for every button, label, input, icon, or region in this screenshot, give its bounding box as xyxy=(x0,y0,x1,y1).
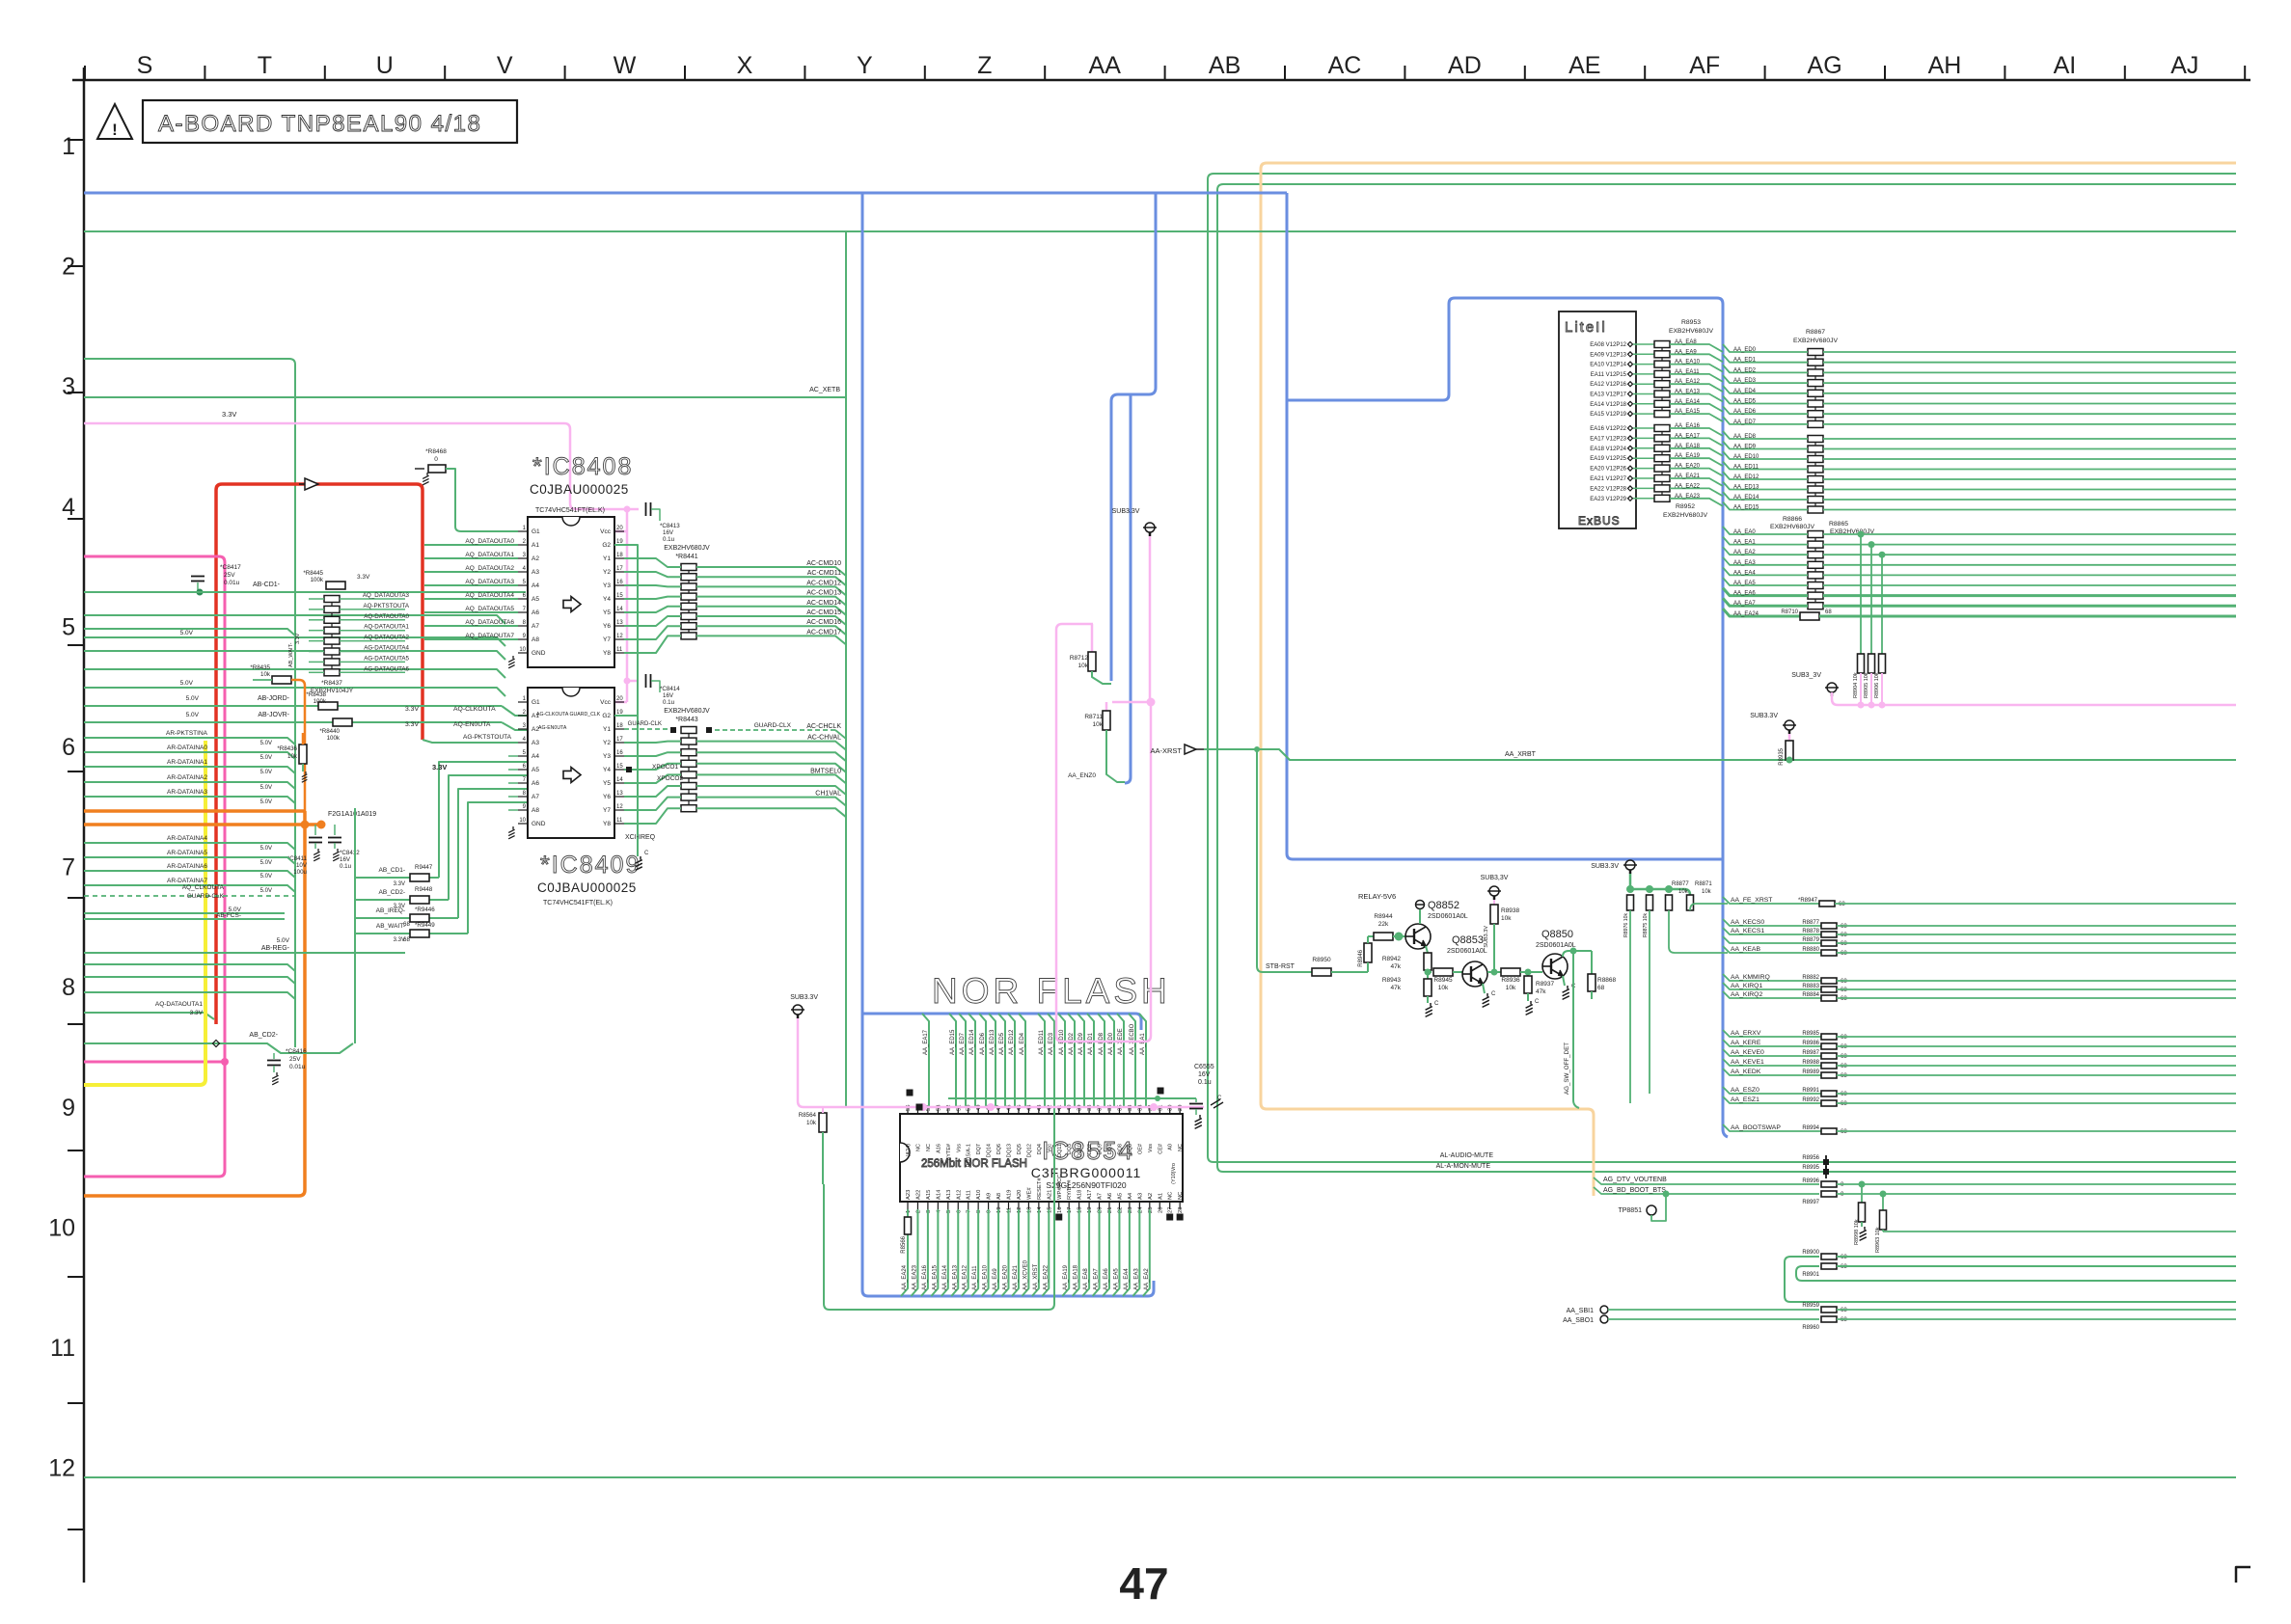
wire net AA_KECS1 row y=969 xyxy=(1723,928,1821,934)
wires R8443 to bus with labels xyxy=(715,729,835,731)
svg-text:C: C xyxy=(1535,999,1540,1005)
svg-text:R8988: R8988 xyxy=(1802,1060,1819,1066)
svg-text:AA_EA11: AA_EA11 xyxy=(1675,369,1700,375)
svg-text:C: C xyxy=(1434,1001,1439,1007)
svg-text:AA_KERE: AA_KERE xyxy=(1731,1040,1761,1046)
svg-text:AA_SBO1: AA_SBO1 xyxy=(1563,1317,1594,1324)
svg-text:AC-CMD17: AC-CMD17 xyxy=(806,629,841,636)
svg-text:14: 14 xyxy=(616,777,623,783)
wire from R8468 to IC8408 pin1 G1 xyxy=(446,469,518,531)
svg-text:W: W xyxy=(614,52,637,79)
svg-text:A7: A7 xyxy=(1098,1193,1104,1200)
wire blue vertical x=1334 to y=891 then right to bus x=1786 xyxy=(1287,193,1722,859)
svg-text:CE#: CE# xyxy=(1158,1143,1163,1154)
junction pink pin20 IC8408 xyxy=(624,506,631,513)
svg-text:AA_KIRQ1: AA_KIRQ1 xyxy=(1731,983,1762,989)
svg-text:AC-CMD16: AC-CMD16 xyxy=(806,619,841,626)
svg-text:A5: A5 xyxy=(532,596,539,603)
svg-text:AA_ED2: AA_ED2 xyxy=(1733,367,1757,373)
svg-text:68: 68 xyxy=(1841,1035,1847,1041)
resistor R8991 68 xyxy=(1821,1091,1837,1096)
wire R8935 to AA_XRST net xyxy=(1788,757,1790,760)
svg-text:AA_ED10: AA_ED10 xyxy=(1733,454,1759,460)
svg-text:2SD0601A0L: 2SD0601A0L xyxy=(1447,948,1487,955)
svg-text:AA_ED1: AA_ED1 xyxy=(1733,358,1757,364)
svg-text:XCI-IREQ: XCI-IREQ xyxy=(625,834,656,841)
wire blue vertical x=894 (NOR flash left side) xyxy=(862,193,868,1296)
svg-text:RY/BY#: RY/BY# xyxy=(1067,1179,1073,1200)
svg-text:*R8441: *R8441 xyxy=(675,554,697,560)
wire net AA_KEAB row y=988 xyxy=(1723,946,1821,953)
wire net AB-JORD- through R8438 xyxy=(84,705,318,707)
svg-text:R8880: R8880 xyxy=(1802,947,1819,953)
wire Q8852 emitter to R8942 xyxy=(1426,946,1428,953)
svg-text:R8995: R8995 xyxy=(1802,1165,1819,1171)
svg-text:AA_KECS1: AA_KECS1 xyxy=(1731,928,1764,934)
wire blue NOR flash bottom bus y=1344 xyxy=(868,1281,1154,1296)
capacitor C8414 0.1u 16V xyxy=(646,674,651,688)
svg-text:AA_ED4: AA_ED4 xyxy=(1020,1032,1025,1055)
svg-text:AA_EA10: AA_EA10 xyxy=(1675,360,1701,365)
svg-text:AA_ED15: AA_ED15 xyxy=(950,1029,956,1055)
svg-text:XPOCO1: XPOCO1 xyxy=(652,764,678,771)
wire net AC_XETB from left edge y=412 xyxy=(84,396,846,398)
svg-text:AB-CD1-: AB-CD1- xyxy=(253,582,281,588)
svg-text:R8997: R8997 xyxy=(1802,1200,1819,1205)
svg-text:R8938: R8938 xyxy=(1501,907,1520,914)
svg-text:*C8416: *C8416 xyxy=(286,1048,307,1055)
svg-text:AC-CMD10: AC-CMD10 xyxy=(806,560,841,567)
capacitor C8416 0.01u 25V xyxy=(273,1053,275,1059)
svg-text:16: 16 xyxy=(616,580,623,585)
svg-text:C0JBAU000025: C0JBAU000025 xyxy=(530,482,629,497)
svg-text:5.0V: 5.0V xyxy=(260,785,272,791)
svg-text:AA_ED13: AA_ED13 xyxy=(1733,485,1759,491)
svg-text:LiteIl: LiteIl xyxy=(1565,319,1607,336)
wire net AA_ESZ0 row y=1134 xyxy=(1723,1087,1821,1094)
svg-text:AE: AE xyxy=(1568,52,1600,79)
ground at IC8409 pin10 xyxy=(508,826,514,839)
wires IC8409 outputs to R8443 xyxy=(624,728,670,730)
resistor R8992 68 xyxy=(1821,1100,1837,1106)
svg-text:Y4: Y4 xyxy=(603,596,611,603)
resistor array R8437 EXB2HV104JY xyxy=(331,595,333,676)
svg-text:68: 68 xyxy=(403,936,410,943)
svg-text:Y6: Y6 xyxy=(603,794,611,800)
svg-text:AA_ED14: AA_ED14 xyxy=(1733,495,1759,501)
svg-text:68: 68 xyxy=(1841,1092,1847,1097)
wire net AA_ESZ1 row y=1144 xyxy=(1723,1096,1821,1103)
svg-text:BYTE#: BYTE# xyxy=(946,1143,952,1160)
resistor R8445 100k xyxy=(326,582,345,589)
svg-text:10: 10 xyxy=(48,1214,75,1241)
wire green R8712 to blue end xyxy=(1092,671,1111,684)
svg-text:5.0V: 5.0V xyxy=(260,755,272,761)
svg-text:DQ15/A-1: DQ15/A-1 xyxy=(967,1144,972,1167)
svg-text:EA18 V12P24: EA18 V12P24 xyxy=(1590,447,1626,452)
wire net AG-PKTSTOUTA from red to IC8409 pin4 xyxy=(423,740,518,743)
svg-text:11: 11 xyxy=(616,647,623,653)
svg-text:G2: G2 xyxy=(602,713,611,719)
svg-text:AA_SBI1: AA_SBI1 xyxy=(1567,1308,1595,1314)
wires AA_EA8-15 from R8953 into blue bus xyxy=(1670,344,1723,352)
svg-text:10k: 10k xyxy=(1093,721,1104,728)
svg-text:AG-DATAOUTA6: AG-DATAOUTA6 xyxy=(364,665,409,672)
svg-text:16V: 16V xyxy=(663,529,674,536)
svg-text:AA_EA20: AA_EA20 xyxy=(1003,1264,1009,1290)
svg-text:17: 17 xyxy=(616,566,623,572)
svg-text:*C8414: *C8414 xyxy=(660,686,680,692)
resistor R8935 10k xyxy=(1788,734,1791,741)
resistor array R8441 EXB2HV680JV xyxy=(688,563,690,639)
svg-text:Vss: Vss xyxy=(1148,1144,1154,1152)
warning triangle symbol xyxy=(97,104,132,139)
svg-text:AQ_DATAOUTA3: AQ_DATAOUTA3 xyxy=(465,579,514,585)
resistor R8900 68 xyxy=(1821,1254,1837,1259)
svg-text:R8989: R8989 xyxy=(1802,1069,1819,1075)
svg-text:AA_EA10: AA_EA10 xyxy=(983,1264,989,1290)
svg-text:R8944: R8944 xyxy=(1374,913,1393,920)
svg-text:C3FBRG000011: C3FBRG000011 xyxy=(1031,1165,1141,1180)
svg-text:*IC8408: *IC8408 xyxy=(532,453,633,480)
svg-text:R8882: R8882 xyxy=(1802,975,1819,981)
svg-text:EXB2HV680JV: EXB2HV680JV xyxy=(664,545,710,552)
svg-text:AA_EA18: AA_EA18 xyxy=(1675,444,1701,449)
svg-text:AC-CMD13: AC-CMD13 xyxy=(806,590,841,597)
svg-text:RESET#: RESET# xyxy=(1037,1177,1043,1200)
capacitor C8412 0.1u xyxy=(334,825,336,835)
svg-text:WP#/ACC: WP#/ACC xyxy=(1057,1175,1063,1200)
transistor Q2 Q8852 2SD0601A0L xyxy=(1405,924,1431,949)
svg-text:AA_EA21: AA_EA21 xyxy=(1013,1264,1019,1290)
svg-text:DQ12: DQ12 xyxy=(1026,1144,1032,1157)
svg-text:AR-DATAINA4: AR-DATAINA4 xyxy=(167,835,207,842)
svg-text:AA_EA20: AA_EA20 xyxy=(1675,464,1701,470)
svg-text:AA_XECBO: AA_XECBO xyxy=(1130,1023,1135,1055)
svg-text:R9448: R9448 xyxy=(415,886,433,893)
svg-text:AA_ED2: AA_ED2 xyxy=(1069,1032,1075,1055)
svg-text:AA_EA2: AA_EA2 xyxy=(1733,550,1756,555)
svg-text:A21: A21 xyxy=(1047,1190,1052,1200)
svg-text:5.0V: 5.0V xyxy=(180,680,194,687)
svg-text:AR-DATAINA1: AR-DATAINA1 xyxy=(167,759,207,766)
column ruler tick marks xyxy=(84,66,86,80)
svg-text:Y: Y xyxy=(857,52,873,79)
svg-text:AD: AD xyxy=(1448,52,1482,79)
wire net AA_KECS0 row y=960 xyxy=(1723,919,1821,926)
wire red loop around IC8408 input area xyxy=(216,484,423,1024)
svg-text:EA15 V12P19: EA15 V12P19 xyxy=(1590,412,1626,418)
wire net AA_KIRQ2 row y=1035 xyxy=(1723,991,1821,998)
svg-text:SUB3.3V: SUB3.3V xyxy=(790,994,818,1001)
svg-text:Y7: Y7 xyxy=(603,636,611,643)
ground at IC8408 pin10 xyxy=(508,656,514,668)
border left ruler line xyxy=(83,68,86,1583)
svg-text:AQ_DATAOUTA0: AQ_DATAOUTA0 xyxy=(465,538,514,545)
resistor R8712 10k xyxy=(1091,624,1094,652)
svg-text:R8866: R8866 xyxy=(1783,516,1802,523)
svg-text:AA_EA23: AA_EA23 xyxy=(1675,494,1701,500)
IC8554 top bus entry wires with net labels xyxy=(922,1014,929,1106)
junction deep pink xyxy=(221,1058,229,1066)
svg-text:A5: A5 xyxy=(1117,1193,1123,1200)
svg-text:R8987: R8987 xyxy=(1802,1050,1819,1056)
svg-text:AA_EA14: AA_EA14 xyxy=(942,1264,948,1290)
svg-text:SUB3.3V: SUB3.3V xyxy=(1112,508,1140,515)
svg-text:AR-DATAINA0: AR-DATAINA0 xyxy=(167,744,207,751)
svg-text:14: 14 xyxy=(616,607,623,612)
resistor R8996 0 xyxy=(1821,1181,1837,1187)
svg-text:R8942: R8942 xyxy=(1382,956,1402,962)
svg-text:DQ14: DQ14 xyxy=(987,1144,993,1157)
svg-text:100k: 100k xyxy=(311,577,324,583)
svg-text:AA_EA1: AA_EA1 xyxy=(1140,1033,1146,1055)
svg-text:U: U xyxy=(376,52,394,79)
svg-text:A6: A6 xyxy=(532,780,539,787)
svg-text:AB-JOVR-: AB-JOVR- xyxy=(258,712,289,718)
svg-text:A3: A3 xyxy=(532,569,539,576)
svg-text:R8904 10k: R8904 10k xyxy=(1853,672,1859,698)
svg-text:68: 68 xyxy=(1841,1101,1847,1107)
svg-text:Y7: Y7 xyxy=(603,807,611,814)
svg-text:AQ_DATAOUTA5: AQ_DATAOUTA5 xyxy=(465,606,514,612)
wire net R8900 row with staircase xyxy=(1785,1257,2236,1302)
component R8995 on AL-A-MON-MUTE line xyxy=(1823,1169,1829,1175)
svg-text:AA_EA23: AA_EA23 xyxy=(912,1264,917,1290)
wire deep pink loop left xyxy=(84,556,225,1177)
svg-text:68: 68 xyxy=(1841,951,1847,957)
wire net AB_CD2- with C8416 xyxy=(84,1043,353,1053)
svg-text:11: 11 xyxy=(616,818,623,824)
svg-text:10k: 10k xyxy=(287,753,298,760)
svg-text:Y6: Y6 xyxy=(603,623,611,630)
arrow marker on red wire xyxy=(305,478,318,490)
border top ruler line xyxy=(72,79,2250,82)
svg-text:A3: A3 xyxy=(1137,1193,1143,1200)
svg-text:EA12 V12P16: EA12 V12P16 xyxy=(1590,382,1626,388)
svg-text:5.0V: 5.0V xyxy=(260,770,272,775)
svg-text:12: 12 xyxy=(48,1455,75,1482)
svg-text:68: 68 xyxy=(1841,941,1847,947)
wires IC8408 outputs Y1-Y8 to R8441 xyxy=(624,558,681,567)
svg-text:68: 68 xyxy=(1841,1044,1847,1050)
svg-text:3.3V: 3.3V xyxy=(190,1010,204,1016)
resistor R8882 68 xyxy=(1821,978,1837,984)
svg-text:13: 13 xyxy=(616,620,623,626)
svg-text:R8976 10k: R8976 10k xyxy=(1623,913,1629,937)
svg-text:AL-A-MON-MUTE: AL-A-MON-MUTE xyxy=(1436,1163,1491,1170)
wire net AA_KERE row y=1085 xyxy=(1723,1040,1821,1046)
svg-text:AB_CD2-: AB_CD2- xyxy=(379,889,405,896)
svg-text:*R8437: *R8437 xyxy=(321,680,342,687)
wire net AG_BD_BOOT_BTS from orange bus xyxy=(1594,1187,1819,1194)
svg-text:R8963 10k: R8963 10k xyxy=(1875,1227,1881,1253)
svg-text:EA11 V12P15: EA11 V12P15 xyxy=(1591,372,1627,378)
resistor array R8865 EXB2HV680JV xyxy=(1814,530,1816,609)
resistor R8877 10k xyxy=(1666,895,1673,910)
svg-text:AA_ED4: AA_ED4 xyxy=(1733,389,1757,394)
IC8554 bottom bus entry wires group2 xyxy=(1062,1209,1069,1296)
wire net AA_FE_XRST row y=937 xyxy=(1723,897,1819,904)
svg-text:0.01u: 0.01u xyxy=(289,1064,306,1070)
svg-text:10k: 10k xyxy=(1702,889,1712,895)
svg-text:AR-DATAINA2: AR-DATAINA2 xyxy=(167,774,207,781)
svg-text:5.0V: 5.0V xyxy=(180,630,194,636)
svg-text:Vcc: Vcc xyxy=(600,528,612,535)
svg-text:A16: A16 xyxy=(936,1144,941,1153)
svg-text:AH: AH xyxy=(1928,52,1962,79)
svg-text:AB_WAIT-: AB_WAIT- xyxy=(288,642,294,667)
svg-text:SUB3,3V: SUB3,3V xyxy=(1481,875,1509,881)
svg-text:DQ8: DQ8 xyxy=(1117,1144,1123,1154)
svg-text:AQ-PKTSTOUTA: AQ-PKTSTOUTA xyxy=(363,603,409,609)
svg-text:AB: AB xyxy=(1209,52,1241,79)
wire net STB-RST from AA_XRST branch xyxy=(1257,749,1312,972)
svg-text:*R9449: *R9449 xyxy=(415,922,435,929)
svg-text:AA_EA11: AA_EA11 xyxy=(972,1265,978,1290)
svg-text:5.0V: 5.0V xyxy=(186,712,200,718)
svg-text:25V: 25V xyxy=(224,572,235,579)
svg-text:R8936: R8936 xyxy=(1501,977,1520,984)
svg-text:EA21 V12P27: EA21 V12P27 xyxy=(1590,476,1626,482)
svg-text:0: 0 xyxy=(434,456,438,463)
svg-text:10V: 10V xyxy=(296,862,308,869)
svg-text:5.0V: 5.0V xyxy=(277,937,290,944)
resistor array R8952 EXB2HV680JV xyxy=(1661,424,1663,502)
wire net AG_SW_OFF_DET down to orange bus xyxy=(1573,951,1579,1108)
op-amp buffer IC U8409 (IC8409 TC74VHC541FT) xyxy=(528,688,614,838)
wire pink Vcc rail x=650 between IC8408 and IC8409 xyxy=(626,509,629,702)
svg-text:AA_FE_XRST: AA_FE_XRST xyxy=(1731,897,1772,904)
wire green L from pin17 RY/BY down-left-up xyxy=(824,1099,1054,1310)
wire net AB_CD1- row to R9447 xyxy=(355,877,410,879)
svg-text:AG-DATAOUTA4: AG-DATAOUTA4 xyxy=(364,645,409,652)
svg-text:68: 68 xyxy=(1839,902,1845,907)
svg-text:AQ_DATAOUTA2: AQ_DATAOUTA2 xyxy=(465,565,514,572)
svg-text:AA_ENZ0: AA_ENZ0 xyxy=(1068,772,1096,779)
svg-text:SUB3.3V: SUB3.3V xyxy=(1484,926,1489,948)
svg-text:GUARD-CLX: GUARD-CLX xyxy=(754,722,792,729)
svg-text:NC: NC xyxy=(1178,1192,1184,1200)
resistor R8942 47k xyxy=(1424,953,1432,970)
resistor R8566 on pin1 column xyxy=(905,1217,912,1234)
wire orange vertical x=316 down to y=1240 left to edge xyxy=(84,811,305,1196)
svg-text:AC_XETB: AC_XETB xyxy=(809,387,840,393)
wire net AB_IREQ- row to R9446 xyxy=(355,917,410,919)
svg-text:A23: A23 xyxy=(906,1190,912,1200)
wire net AA_KEDK row y=1115 xyxy=(1723,1069,1821,1075)
wire R8875 long down to ESZ rows xyxy=(1649,910,1650,1094)
svg-text:AA_EA19: AA_EA19 xyxy=(1675,453,1701,459)
svg-text:R8871: R8871 xyxy=(1695,881,1712,887)
svg-text:G2: G2 xyxy=(602,542,611,549)
svg-text:DQ7: DQ7 xyxy=(976,1144,982,1154)
svg-text:AA_EA4: AA_EA4 xyxy=(1733,570,1756,576)
wire R8938 down to chain xyxy=(1493,924,1495,972)
svg-text:DQ10: DQ10 xyxy=(1077,1144,1083,1157)
svg-text:EXB2HV680JV: EXB2HV680JV xyxy=(664,708,710,715)
svg-text:AA_ED0: AA_ED0 xyxy=(1733,347,1757,353)
svg-text:68: 68 xyxy=(1597,985,1605,991)
capacitor C8413 0.1u 16V xyxy=(646,502,651,516)
svg-text:AA_ESZ1: AA_ESZ1 xyxy=(1731,1096,1759,1103)
svg-text:AA_EA12: AA_EA12 xyxy=(963,1264,968,1290)
svg-text:3.3V: 3.3V xyxy=(357,574,370,581)
svg-text:AG: AG xyxy=(1808,52,1842,79)
svg-text:68: 68 xyxy=(1841,1317,1847,1323)
svg-text:AA_EA8: AA_EA8 xyxy=(1675,339,1697,345)
svg-text:R8712: R8712 xyxy=(1070,655,1089,662)
resistor R8963 10k xyxy=(1880,1191,1887,1198)
resistor R8440 100k xyxy=(333,718,352,726)
svg-text:R8986: R8986 xyxy=(1802,1041,1819,1046)
wire net AA_KEVE1 row y=1105 xyxy=(1723,1059,1821,1066)
wire blue branch x=1198 down jog to x=1152 ends at R8712 xyxy=(1111,193,1156,681)
svg-text:R8711: R8711 xyxy=(1084,714,1103,720)
svg-text:AQ-CLKOUTA: AQ-CLKOUTA xyxy=(453,706,496,713)
svg-text:5.0V: 5.0V xyxy=(260,741,272,746)
wire net AB-JOVR- through R8440 xyxy=(84,721,333,723)
wire blue bus top y=200 xyxy=(84,192,1287,195)
svg-text:A2: A2 xyxy=(1148,1193,1154,1200)
wire net AQ-DATAOUTA1 3.3V joining red bottom xyxy=(84,1013,214,1019)
svg-text:A10: A10 xyxy=(976,1190,982,1200)
svg-text:10k: 10k xyxy=(1506,985,1516,991)
svg-text:5.0V: 5.0V xyxy=(260,799,272,805)
svg-text:AA_KECS0: AA_KECS0 xyxy=(1731,919,1764,926)
svg-text:AQ-DATAOUTA1: AQ-DATAOUTA1 xyxy=(364,624,409,631)
svg-text:WE#: WE# xyxy=(1026,1187,1032,1200)
capacitor C8411 100u xyxy=(314,825,316,835)
terminal squares on NC pins 27 28 and WP pin16 xyxy=(1166,1214,1173,1221)
svg-text:DQ3: DQ3 xyxy=(1067,1144,1073,1154)
svg-text:EXB2HV680JV: EXB2HV680JV xyxy=(1669,328,1714,335)
svg-text:AA_EA6: AA_EA6 xyxy=(1733,591,1756,597)
svg-text:G1: G1 xyxy=(532,528,540,535)
wire pink Vcc stub IC8408 pin20 xyxy=(614,530,627,533)
svg-text:AG-EN0UTA: AG-EN0UTA xyxy=(538,725,567,731)
svg-text:10k: 10k xyxy=(806,1120,817,1126)
row ruler tick marks xyxy=(68,139,84,141)
left edge AR-DATAINA stub nets xyxy=(84,738,295,744)
svg-text:Q8853: Q8853 xyxy=(1452,934,1484,946)
svg-text:AA_EA15: AA_EA15 xyxy=(1675,409,1701,415)
svg-text:R9447: R9447 xyxy=(415,864,433,871)
svg-text:A4: A4 xyxy=(532,582,539,589)
svg-text:22k: 22k xyxy=(1378,921,1389,928)
svg-text:AA_ED12: AA_ED12 xyxy=(1009,1029,1015,1055)
wire Q8850 emitter ground xyxy=(1563,976,1565,986)
svg-text:DQ4: DQ4 xyxy=(1037,1144,1043,1154)
svg-text:AC-CMD12: AC-CMD12 xyxy=(806,580,841,586)
svg-text:R8875 10k: R8875 10k xyxy=(1643,913,1649,937)
svg-text:A2: A2 xyxy=(532,555,539,562)
left edge green stub nets rows xyxy=(84,615,505,624)
svg-text:AA_EA3: AA_EA3 xyxy=(1133,1268,1139,1290)
svg-text:Y4: Y4 xyxy=(603,767,611,773)
svg-text:AG-CLKOUTA GUARD_CLK: AG-CLKOUTA GUARD_CLK xyxy=(536,712,601,717)
svg-text:A5: A5 xyxy=(532,767,539,773)
svg-text:27: 27 xyxy=(1168,1207,1174,1213)
svg-text:0.1u: 0.1u xyxy=(340,863,352,870)
svg-text:R8878: R8878 xyxy=(1802,929,1819,934)
svg-text:AA_EA9: AA_EA9 xyxy=(1675,349,1697,355)
svg-text:4: 4 xyxy=(62,494,75,521)
svg-text:AB-JORD-: AB-JORD- xyxy=(258,695,290,702)
svg-text:AQ_DATAOUTA6: AQ_DATAOUTA6 xyxy=(465,619,514,626)
resistor R8998 10k to ground xyxy=(1859,1181,1866,1188)
svg-text:16V: 16V xyxy=(340,856,351,863)
